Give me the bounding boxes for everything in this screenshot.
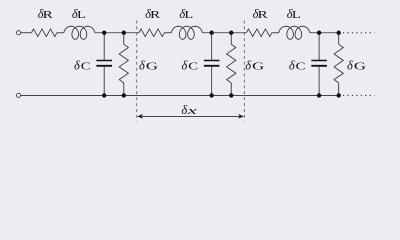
svg-text:x: x: [186, 105, 197, 117]
svg-text:G: G: [252, 61, 264, 73]
svg-text:C: C: [296, 61, 306, 73]
svg-text:δ: δ: [181, 59, 187, 73]
svg-text:R: R: [43, 9, 54, 21]
svg-text:R: R: [150, 9, 161, 21]
svg-text:δ: δ: [74, 59, 80, 73]
svg-text:G: G: [146, 61, 158, 73]
svg-text:R: R: [258, 9, 269, 21]
svg-text:L: L: [184, 9, 193, 21]
svg-text:δ: δ: [245, 59, 251, 73]
svg-text:L: L: [77, 9, 86, 21]
svg-text:δ: δ: [181, 103, 187, 117]
svg-text:G: G: [354, 61, 366, 73]
svg-text:δ: δ: [139, 59, 145, 73]
svg-text:δ: δ: [289, 59, 295, 73]
svg-text:C: C: [188, 61, 198, 73]
svg-text:L: L: [292, 9, 301, 21]
svg-text:C: C: [81, 61, 91, 73]
svg-text:δ: δ: [347, 59, 353, 73]
